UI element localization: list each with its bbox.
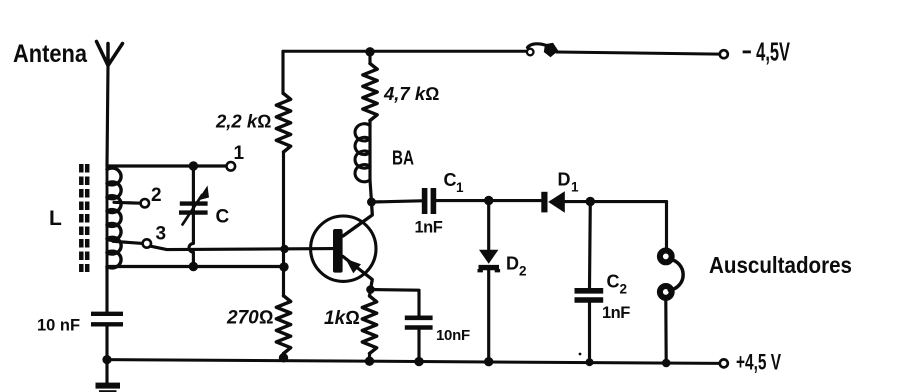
headphones jack bottom contact: [660, 286, 672, 298]
terminal 2: [141, 199, 149, 207]
wire 10nF to rail: [417, 330, 420, 362]
svg-text:1: 1: [234, 143, 245, 164]
wire 4.7k to BA: [368, 121, 371, 181]
resistor 2.2k top lead: [281, 51, 284, 93]
svg-text:2: 2: [620, 282, 628, 297]
terminal -4.5V: [720, 50, 728, 58]
resistor 2,2k: [276, 94, 290, 153]
svg-text:C: C: [607, 272, 620, 292]
capacitor 10nF mid plates: [405, 318, 433, 328]
tap 3 wire: [113, 241, 143, 243]
wire emitter to 10nF: [371, 290, 420, 317]
svg-text:3: 3: [156, 224, 167, 245]
svg-text:1: 1: [571, 180, 579, 195]
svg-text:C: C: [216, 207, 230, 228]
node junction 270 rail: [279, 353, 288, 362]
svg-text:C: C: [444, 170, 457, 190]
node junction base: [280, 245, 288, 253]
terminal 1: [227, 162, 236, 171]
node junction bottom of C: [189, 262, 198, 271]
headphones spring arc: [669, 259, 683, 290]
svg-text:10nF: 10nF: [436, 327, 470, 344]
node junction headphones rail: [662, 359, 671, 368]
top rail right segment: [557, 52, 720, 54]
wire collector to C1: [372, 201, 422, 202]
diode D2 lead top: [487, 201, 490, 251]
wire BA to collector node: [370, 180, 372, 202]
capacitor C2 plates: [575, 291, 604, 300]
antenna: [97, 42, 123, 66]
wire base from tap 3: [151, 246, 333, 249]
svg-text:Antena: Antena: [13, 40, 88, 68]
terminal +4.5V: [720, 359, 728, 367]
svg-text:1: 1: [456, 180, 464, 195]
wire coil top to terminal 1: [107, 164, 226, 167]
headphones jack top contact: [660, 251, 672, 263]
node junction collector: [367, 198, 376, 207]
svg-text:D: D: [506, 254, 519, 274]
wire 270 to rail: [282, 354, 285, 358]
svg-text:L: L: [49, 207, 62, 230]
transistor collector lead: [343, 202, 372, 236]
node junction ground: [102, 355, 111, 364]
switch contact arrow: [544, 43, 559, 58]
inductor L core: [81, 164, 87, 272]
svg-text:2: 2: [519, 264, 527, 279]
resistor 1k top lead: [370, 290, 371, 297]
variable capacitor C stem with hop: [189, 166, 193, 267]
svg-text:2,2 kΩ: 2,2 kΩ: [215, 111, 271, 132]
svg-text:1kΩ: 1kΩ: [324, 308, 360, 329]
transistor emitter lead: [343, 257, 372, 290]
diode D2 lead bottom: [487, 270, 490, 362]
transistor Q1 body: [311, 216, 376, 281]
svg-text:D: D: [558, 170, 571, 190]
node junction top of C: [189, 161, 198, 170]
inductor BA: [355, 124, 370, 182]
svg-text:4,7 kΩ: 4,7 kΩ: [383, 83, 439, 104]
node junction 4.7k: [365, 47, 374, 56]
svg-text:2: 2: [151, 185, 162, 206]
top rail left segment: [283, 50, 527, 53]
resistor 4.7k top lead: [368, 51, 371, 63]
diode D2: [479, 250, 498, 264]
node junction D2 top: [484, 196, 493, 205]
resistor 270: [276, 296, 290, 354]
node junction 1k rail: [365, 357, 374, 366]
node junction coil bottom to divider: [279, 262, 288, 271]
capacitor C1 plates: [422, 188, 428, 214]
node junction emitter: [366, 285, 375, 294]
resistor 4,7k: [363, 64, 377, 121]
switch pivot: [527, 49, 534, 56]
wire D1 to headphones corner: [565, 200, 667, 203]
capacitor C2 lead top: [588, 202, 592, 288]
wire coil bottom to capacitor: [105, 267, 108, 312]
tap 2 wire: [114, 201, 141, 205]
terminal 3: [143, 239, 151, 247]
svg-text:+4,5 V: +4,5 V: [736, 350, 781, 375]
wire antenna lead-in: [107, 66, 108, 167]
switch lever: [528, 44, 548, 48]
svg-text:BA: BA: [392, 148, 414, 170]
diode D1: [541, 192, 547, 213]
svg-text:1nF: 1nF: [602, 304, 630, 322]
svg-text:1nF: 1nF: [415, 219, 443, 237]
wire coil bottom: [107, 265, 284, 268]
node junction D2 rail: [484, 357, 493, 366]
variable capacitor C arrow: [183, 195, 203, 225]
wire headphones bottom: [664, 300, 668, 363]
bottom rail: [107, 360, 720, 364]
svg-text:270Ω: 270Ω: [226, 308, 273, 329]
capacitor 10nF left plates: [91, 314, 123, 325]
wire capacitor to rail: [105, 327, 108, 361]
transistor emitter arrow: [346, 259, 362, 274]
svg-text:Auscultadores: Auscultadores: [709, 252, 852, 278]
svg-text:10 nF: 10 nF: [37, 317, 80, 335]
ground: [96, 383, 121, 389]
resistor 1k: [362, 296, 376, 354]
node junction 10nF rail: [414, 357, 423, 366]
transistor base bar: [333, 229, 343, 273]
svg-text:− 4,5V: − 4,5V: [742, 37, 790, 67]
capacitor C2 lead bottom: [588, 303, 591, 362]
variable capacitor C plates: [179, 204, 208, 213]
node junction C2 top: [586, 197, 595, 206]
wire C1 to D1: [436, 199, 540, 202]
wire to ground: [105, 360, 108, 383]
wire 1k to rail: [368, 354, 371, 362]
inductor L: [107, 168, 121, 268]
wire 2.2k to base node: [282, 152, 285, 296]
node junction C2 rail: [586, 358, 594, 366]
speck: [579, 353, 582, 356]
wire headphones top: [665, 202, 668, 249]
